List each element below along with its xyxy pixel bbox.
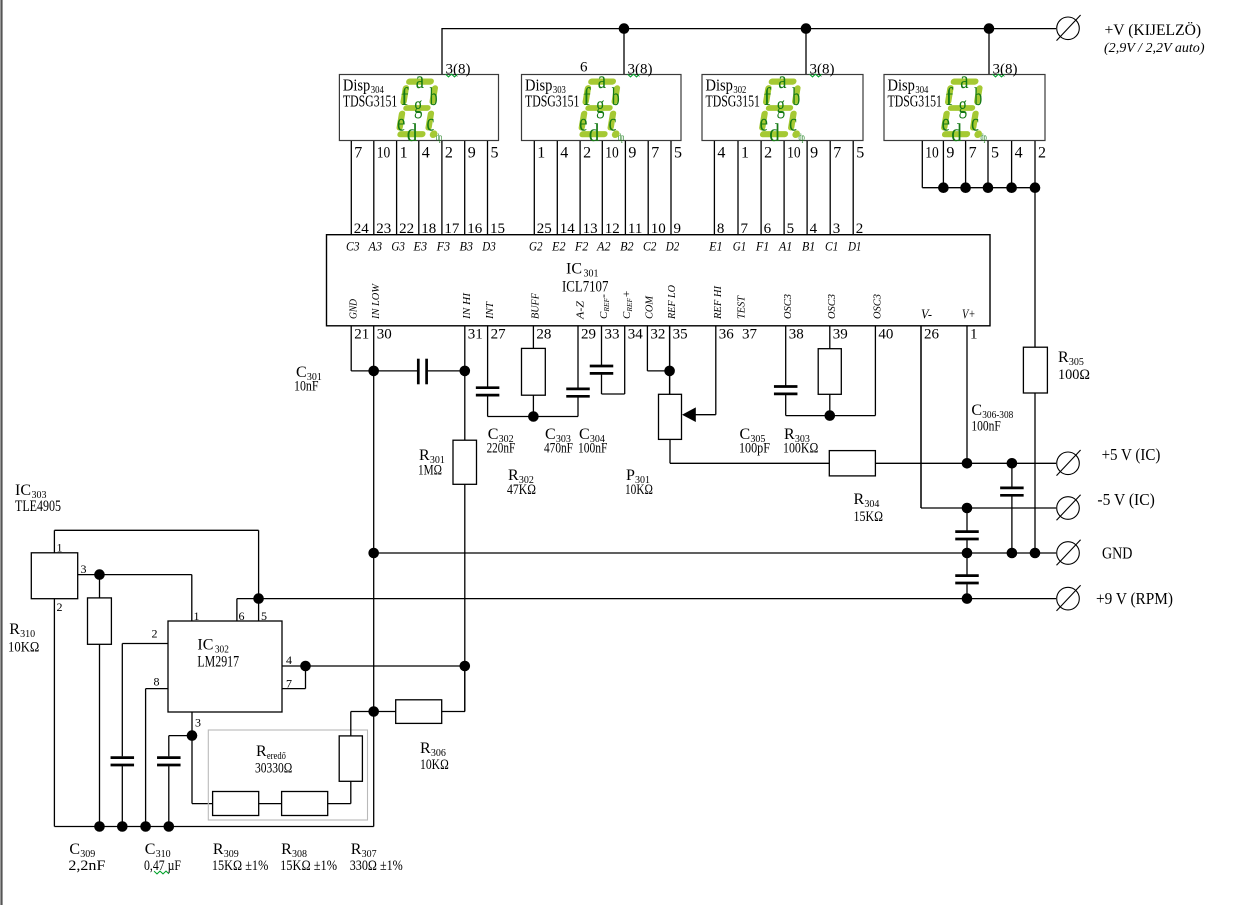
svg-text:10KΩ: 10KΩ xyxy=(420,757,449,773)
wire display4 pin 7 xyxy=(965,141,967,188)
wire C304 down xyxy=(601,375,603,394)
node bus-R310 xyxy=(94,821,105,832)
capacitor C307 (GND to +9V) xyxy=(955,574,979,577)
svg-text:15KΩ: 15KΩ xyxy=(854,509,884,525)
svg-text:10: 10 xyxy=(651,221,666,237)
svg-text:330Ω ±1%: 330Ω ±1% xyxy=(350,858,403,874)
svg-text:COM: COM xyxy=(644,295,656,319)
svg-text:A1: A1 xyxy=(778,240,792,254)
svg-text:2: 2 xyxy=(445,145,453,162)
svg-text:GND: GND xyxy=(1102,544,1132,563)
svg-text:6: 6 xyxy=(239,609,245,623)
svg-text:15KΩ ±1%: 15KΩ ±1% xyxy=(280,858,337,874)
svg-text:(2,9V / 2,2V auto): (2,9V / 2,2V auto) xyxy=(1104,40,1205,55)
svg-text:C3: C3 xyxy=(346,240,360,254)
svg-text:A-Z: A-Z xyxy=(574,300,586,320)
resistor R310 xyxy=(88,598,112,644)
svg-text:31: 31 xyxy=(468,327,483,343)
wire display2 pin 2 xyxy=(579,141,581,235)
svg-text:3: 3 xyxy=(81,562,87,576)
svg-text:R: R xyxy=(1058,349,1069,366)
svg-text:100KΩ: 100KΩ xyxy=(783,441,818,457)
wire R305 down to GND xyxy=(1034,393,1036,553)
wire display4 pin 10 xyxy=(921,141,923,188)
svg-text:1: 1 xyxy=(400,145,408,162)
node pin3 junction xyxy=(187,730,198,741)
svg-text:10: 10 xyxy=(925,145,939,162)
node pin31-C301 xyxy=(460,366,471,377)
svg-text:16: 16 xyxy=(467,221,483,237)
svg-text:C1: C1 xyxy=(825,240,839,254)
svg-text:30: 30 xyxy=(377,327,392,343)
wire IC301 pin 36 stub xyxy=(715,326,717,415)
display Disp304 display 4 TDSG3151 box xyxy=(884,75,1045,141)
node OSC junction xyxy=(825,410,836,421)
resistor R306 xyxy=(396,700,442,724)
wire IC302 pin5 up xyxy=(258,599,260,621)
svg-text:OSC3: OSC3 xyxy=(826,294,838,319)
wire IC302 pin3 stub xyxy=(191,712,193,736)
svg-text:F3: F3 xyxy=(436,240,450,254)
display Disp303 display 2 TDSG3151 box xyxy=(522,75,682,141)
svg-text:24: 24 xyxy=(354,221,370,237)
svg-text:33: 33 xyxy=(605,327,620,343)
svg-text:29: 29 xyxy=(581,327,596,343)
svg-text:INT: INT xyxy=(484,301,496,320)
f-V converter IC302 LM2917 box xyxy=(168,621,282,712)
svg-text:21: 21 xyxy=(354,327,369,343)
wire pin2 down to C309 xyxy=(121,644,123,757)
svg-text:10: 10 xyxy=(605,145,619,162)
svg-text:V-: V- xyxy=(921,308,932,323)
node -5V cap xyxy=(962,503,973,514)
svg-text:5: 5 xyxy=(991,145,999,162)
svg-text:D3: D3 xyxy=(481,240,495,254)
wire +9V rail xyxy=(259,598,1056,600)
junction display4 bus xyxy=(1030,182,1041,193)
svg-text:1: 1 xyxy=(537,145,545,162)
wire IC303 pin1 up xyxy=(53,530,55,553)
wire IC301 pin 39 stub xyxy=(829,326,831,349)
svg-text:G2: G2 xyxy=(529,240,543,254)
wire C303 to junction wire xyxy=(577,397,579,416)
wire C304 to pin34 horizontal xyxy=(602,393,625,395)
svg-text:0,47 µF: 0,47 µF xyxy=(144,858,181,874)
wire pin35 column xyxy=(669,326,671,395)
wire display2 pin 10 xyxy=(601,141,603,235)
svg-text:10: 10 xyxy=(377,145,391,162)
svg-text:17: 17 xyxy=(444,221,460,237)
svg-text:1: 1 xyxy=(741,145,749,162)
svg-text:14: 14 xyxy=(560,221,576,237)
svg-text:4: 4 xyxy=(810,221,818,237)
terminal -5V (IC) xyxy=(1057,497,1080,520)
node pin30-C301 xyxy=(368,366,379,377)
svg-text:OSC3: OSC3 xyxy=(872,294,884,319)
svg-text:3(8): 3(8) xyxy=(810,62,835,78)
svg-text:1: 1 xyxy=(57,541,63,555)
wire REF HI to wiper xyxy=(695,414,716,416)
node GND capA xyxy=(962,548,973,559)
wire P301 bottom down xyxy=(669,439,671,463)
svg-text:4: 4 xyxy=(422,145,430,162)
wire C305 down xyxy=(785,395,787,416)
node +9V capB xyxy=(962,593,973,604)
svg-text:2: 2 xyxy=(764,145,772,162)
wire display1 pin 4 xyxy=(418,141,420,235)
svg-text:9: 9 xyxy=(674,221,682,237)
svg-text:7: 7 xyxy=(354,145,362,162)
svg-text:7: 7 xyxy=(833,145,841,162)
svg-text:2: 2 xyxy=(152,627,158,641)
resistor R308 xyxy=(282,792,328,816)
svg-text:32: 32 xyxy=(650,327,665,343)
wire display1 3(8) to bus xyxy=(441,28,443,75)
svg-text:100Ω: 100Ω xyxy=(1058,367,1090,383)
svg-text:V+: V+ xyxy=(962,308,976,323)
svg-text:TLE4905: TLE4905 xyxy=(15,498,61,515)
wire display3 pin 1 xyxy=(737,141,739,235)
wire display3 pin 9 xyxy=(806,141,808,235)
wire IC301 pin 29 stub xyxy=(577,326,579,388)
wire R309 to R308 xyxy=(259,803,282,805)
wire R302 to junction xyxy=(532,395,534,416)
svg-text:G3: G3 xyxy=(391,240,405,254)
svg-text:F2: F2 xyxy=(574,240,588,254)
node pin4-pin7 xyxy=(300,661,311,672)
wire oscillator junction xyxy=(786,415,876,417)
svg-text:22: 22 xyxy=(399,221,414,237)
svg-text:B1: B1 xyxy=(802,240,816,254)
wire display3 pin 5 xyxy=(852,141,854,235)
svg-text:-5 V (IC): -5 V (IC) xyxy=(1097,490,1154,509)
wire display2 pin 7 xyxy=(647,141,649,235)
wire display4 3(8) to bus xyxy=(988,29,990,75)
svg-text:E2: E2 xyxy=(551,240,565,254)
wire display3 pin 2 xyxy=(760,141,762,235)
wire IC301 pin 26 stub xyxy=(920,326,922,508)
wire GND rail xyxy=(374,552,1056,554)
svg-text:R: R xyxy=(9,621,20,638)
wire IC301 pin 27 stub xyxy=(487,326,489,387)
junction display4 bus xyxy=(1006,182,1017,193)
svg-text:12: 12 xyxy=(605,221,620,237)
svg-text:8: 8 xyxy=(717,221,725,237)
wire IC301 pin 28 stub xyxy=(532,326,534,349)
svg-text:23: 23 xyxy=(376,221,391,237)
wire IC301 pin 33 stub xyxy=(601,326,603,365)
wire IC301 pin 32 stub xyxy=(646,326,648,371)
svg-text:B3: B3 xyxy=(459,240,473,254)
svg-text:7: 7 xyxy=(969,145,977,162)
node bus-C309 xyxy=(117,821,128,832)
wire display2 pin 9 xyxy=(624,141,626,235)
wire IC301 pin 38 stub xyxy=(785,326,787,386)
svg-text:R: R xyxy=(854,491,865,508)
svg-text:4: 4 xyxy=(560,145,568,162)
resistor R305 xyxy=(1023,347,1047,393)
wire P301 to R304 xyxy=(670,462,829,464)
svg-text:R: R xyxy=(213,841,224,858)
7-segment digit of display 4 xyxy=(939,67,991,147)
svg-text:3(8): 3(8) xyxy=(628,62,653,78)
svg-text:2: 2 xyxy=(57,600,63,614)
wire IC302 pin6 up xyxy=(236,599,238,621)
wire C309 down to bus xyxy=(121,766,123,826)
wire C310 top xyxy=(168,736,170,757)
resistor R303 xyxy=(818,349,841,395)
svg-text:9: 9 xyxy=(946,145,954,162)
svg-text:TDSG3151: TDSG3151 xyxy=(888,91,942,110)
display Disp304 display 1 TDSG3151 box xyxy=(339,75,498,141)
svg-text:2: 2 xyxy=(856,221,864,237)
wire display3 pin 7 xyxy=(829,141,831,235)
node pin4-R301 column xyxy=(460,661,471,672)
sheet left border xyxy=(0,0,2,905)
svg-text:2,2nF: 2,2nF xyxy=(68,858,105,874)
svg-text:R: R xyxy=(351,841,362,858)
svg-text:3(8): 3(8) xyxy=(993,62,1018,78)
svg-text:4: 4 xyxy=(286,653,292,667)
svg-text:B2: B2 xyxy=(620,240,634,254)
wire R310 down to bus xyxy=(99,644,101,826)
node bus-C310 xyxy=(164,821,175,832)
display4 common bus wire xyxy=(922,187,1035,189)
ground return bus wire xyxy=(54,826,373,828)
svg-text:10nF: 10nF xyxy=(294,379,319,395)
wire display2 pin 5 xyxy=(670,141,672,235)
wire display1 pin 5 xyxy=(487,141,489,235)
wire IC303 pin2 down to bus xyxy=(53,599,55,827)
svg-text:TDSG3151: TDSG3151 xyxy=(525,91,579,110)
wire display1 pin 1 xyxy=(396,141,398,235)
svg-text:8: 8 xyxy=(154,675,160,689)
svg-text:ICL7107: ICL7107 xyxy=(562,279,608,296)
svg-text:C: C xyxy=(69,841,80,858)
wire IC302 pin7 across xyxy=(282,688,306,690)
svg-text:3: 3 xyxy=(833,221,841,237)
wire IC302 pin4 across xyxy=(282,665,465,667)
resistor R304 xyxy=(829,451,875,476)
node GND-inlow xyxy=(368,548,379,559)
svg-text:9: 9 xyxy=(810,145,818,162)
node R306-inlow column xyxy=(368,706,379,717)
svg-text:18: 18 xyxy=(421,221,436,237)
svg-text:100pF: 100pF xyxy=(739,441,770,457)
hall sensor IC303 box xyxy=(31,553,77,599)
svg-text:5: 5 xyxy=(261,609,267,623)
svg-text:R: R xyxy=(256,743,267,760)
wire pin26 V- column xyxy=(920,326,922,508)
resistor R301 xyxy=(453,440,477,484)
wire -5V cap top xyxy=(966,508,968,530)
svg-text:D1: D1 xyxy=(847,240,861,254)
junction display4 bus xyxy=(938,182,949,193)
svg-text:30330Ω: 30330Ω xyxy=(255,761,292,777)
svg-text:26: 26 xyxy=(924,327,940,343)
wire vertical resistor top xyxy=(350,712,352,736)
svg-text:TDSG3151: TDSG3151 xyxy=(706,91,760,110)
node bus-disp2 xyxy=(619,23,630,34)
wire pin7 up to pin4 xyxy=(305,666,307,689)
node bus-disp3 xyxy=(801,23,812,34)
svg-text:7: 7 xyxy=(741,221,749,237)
resistor R307 (vertical in group) xyxy=(339,736,362,781)
wire C301 right xyxy=(428,370,465,372)
svg-text:6: 6 xyxy=(580,60,588,76)
svg-text:BUFF: BUFF xyxy=(530,293,542,319)
svg-text:GND: GND xyxy=(348,299,360,319)
svg-text:310: 310 xyxy=(20,629,35,640)
svg-text:IN HI: IN HI xyxy=(461,292,473,320)
svg-text:25: 25 xyxy=(537,221,552,237)
svg-text:100nF: 100nF xyxy=(971,419,1000,435)
wire pin3 to C310 xyxy=(169,735,192,737)
wire display2 pin 1 xyxy=(533,141,535,235)
wire display4 pin 4 xyxy=(1011,141,1013,188)
svg-text:E1: E1 xyxy=(708,240,722,254)
wire +5V capC top xyxy=(1011,463,1013,486)
wire IC301 pin 21 stub xyxy=(350,326,352,371)
capacitor C303 xyxy=(566,388,590,391)
svg-text:+5 V (IC): +5 V (IC) xyxy=(1102,445,1161,464)
terminal +9V (RPM) xyxy=(1057,587,1080,610)
wire integrator junction xyxy=(488,416,578,418)
wire capB bottom xyxy=(966,584,968,598)
wire IC303 pin1 across xyxy=(54,529,258,531)
svg-text:220nF: 220nF xyxy=(487,441,516,457)
svg-text:13: 13 xyxy=(583,221,598,237)
wire GND capB top xyxy=(966,553,968,574)
svg-text:4: 4 xyxy=(717,145,725,162)
svg-text:40: 40 xyxy=(878,327,893,343)
potentiometer P301 wiper arrow xyxy=(682,407,696,422)
wire IC301 pin 35 stub xyxy=(669,326,671,395)
node COM-REFLO xyxy=(664,366,675,377)
svg-text:A2: A2 xyxy=(596,240,610,254)
wire to R306 node xyxy=(351,711,374,713)
7-segment digit of display 1 xyxy=(395,67,447,147)
wire -5V cap bottom xyxy=(966,540,968,553)
wire pin3 down xyxy=(191,736,193,804)
svg-text:1: 1 xyxy=(970,327,978,343)
resistor R309 xyxy=(213,792,259,816)
svg-text:2: 2 xyxy=(1038,145,1046,162)
wire IC303 pin1 down to +9V node xyxy=(258,530,260,598)
svg-text:R: R xyxy=(420,740,431,757)
wire C310 down to bus xyxy=(168,766,170,826)
svg-text:10KΩ: 10KΩ xyxy=(8,640,39,656)
svg-text:39: 39 xyxy=(833,327,848,343)
node GND capC xyxy=(1007,548,1018,559)
svg-text:1: 1 xyxy=(194,609,200,623)
svg-text:35: 35 xyxy=(673,327,688,343)
wire IN HI column (pin 31 down to R306) xyxy=(464,326,466,712)
svg-text:TEST: TEST xyxy=(735,295,747,319)
junction display4 bus xyxy=(983,182,994,193)
svg-text:R: R xyxy=(419,447,430,464)
resistor R302 xyxy=(522,348,546,395)
svg-text:7: 7 xyxy=(651,145,659,162)
terminal +V (KIJELZO) xyxy=(1057,17,1080,40)
wire R308 right xyxy=(328,803,351,805)
node INT-BUFF-AZ junction xyxy=(528,411,539,422)
junction display4 bus xyxy=(960,182,971,193)
wire display3 pin 10 xyxy=(783,141,785,235)
wire display3 pin 4 xyxy=(713,141,715,235)
wire display1 pin 10 xyxy=(373,141,375,235)
svg-text:37: 37 xyxy=(742,327,758,343)
wire pin27 cap to junction wire xyxy=(487,396,489,416)
svg-text:9: 9 xyxy=(628,145,636,162)
wire IC301 pin 40 stub xyxy=(874,326,876,416)
resultant resistor group box Reredo xyxy=(208,730,367,820)
svg-text:34: 34 xyxy=(628,327,644,343)
svg-text:27: 27 xyxy=(491,327,507,343)
wire display4 pin 5 xyxy=(987,141,989,188)
svg-text:38: 38 xyxy=(789,327,804,343)
svg-text:470nF: 470nF xyxy=(544,441,573,457)
wire capC bottom xyxy=(1011,496,1013,553)
node pin1 +5V xyxy=(962,458,973,469)
wire IC302 pin6 across xyxy=(237,598,259,600)
wire up to vertical resistor xyxy=(350,781,352,803)
wire IC301 pin 21 to node xyxy=(351,370,374,372)
wire IC301 pin 32 to pin 35 xyxy=(647,370,669,372)
wire display4 pin 9 xyxy=(942,141,944,188)
svg-text:E3: E3 xyxy=(413,240,427,254)
wire IC303 pin3 across xyxy=(78,574,192,576)
wire R303 to junction xyxy=(829,394,831,415)
svg-text:9: 9 xyxy=(468,145,476,162)
capacitor C304 xyxy=(590,365,614,368)
svg-text:A3: A3 xyxy=(368,240,382,254)
wire pin3 down to IC302 pin1 xyxy=(191,575,193,621)
svg-text:+V (KIJELZÖ): +V (KIJELZÖ) xyxy=(1105,21,1202,39)
svg-text:+9 V (RPM): +9 V (RPM) xyxy=(1096,589,1173,608)
svg-text:G1: G1 xyxy=(733,240,747,254)
svg-text:36: 36 xyxy=(719,327,735,343)
wire IC302 pin8 across xyxy=(146,688,168,690)
svg-text:3(8): 3(8) xyxy=(446,62,471,78)
svg-text:11: 11 xyxy=(628,221,642,237)
wire +5V rail xyxy=(875,462,1056,464)
wire display2 pin 4 xyxy=(556,141,558,235)
svg-text:5: 5 xyxy=(674,145,682,162)
svg-text:4: 4 xyxy=(1015,145,1023,162)
wire IC301 pin 1 stub xyxy=(966,326,968,464)
wire display4 bus down to R305 xyxy=(1034,188,1036,348)
terminal +5V (IC) xyxy=(1057,452,1080,475)
wire display2 3(8) to bus xyxy=(623,29,625,75)
svg-text:2: 2 xyxy=(583,145,591,162)
svg-text:IC: IC xyxy=(566,261,582,278)
capacitor C306 (-5V to GND) xyxy=(955,530,979,533)
capacitor C305 xyxy=(774,385,798,388)
svg-text:C: C xyxy=(145,841,156,858)
svg-text:1MΩ: 1MΩ xyxy=(418,463,442,479)
potentiometer P301 body xyxy=(659,394,682,439)
7-segment digit of display 3 xyxy=(757,67,809,147)
+V supply bus wire xyxy=(442,28,1056,30)
wire pin8 down to bus xyxy=(145,689,147,827)
svg-text:REF HI: REF HI xyxy=(712,285,724,320)
wire pin3 to R309 xyxy=(192,803,213,805)
svg-text:5: 5 xyxy=(491,145,499,162)
wire IN LOW column (pin 30 down to bottom bus) xyxy=(373,326,375,827)
svg-text:10KΩ: 10KΩ xyxy=(625,482,653,498)
svg-text:R: R xyxy=(281,841,292,858)
